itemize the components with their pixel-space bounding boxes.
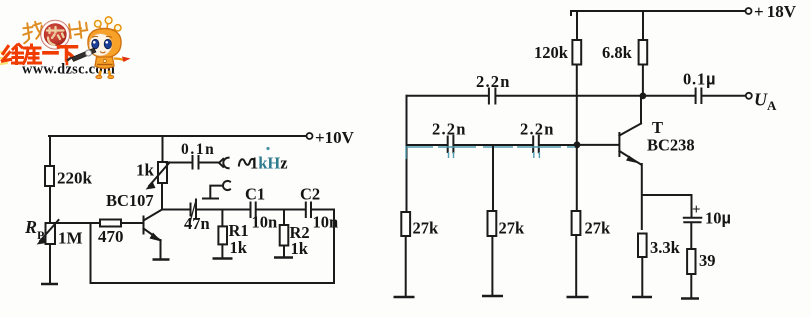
- svg-text:1k: 1k: [136, 161, 155, 180]
- wire: 3.3k to ground: [641, 257, 643, 297]
- char pian (chip) orange outlined: [69, 21, 88, 40]
- svg-text:39: 39: [699, 251, 716, 270]
- wiper arrow of RP: [40, 220, 59, 241]
- wire: 6.8k column from rail: [642, 11, 644, 40]
- node +18V terminal: [746, 2, 797, 21]
- resistor 27k third: [572, 211, 611, 238]
- svg-text:10µ: 10µ: [705, 209, 731, 228]
- wire: base node horizontal run: [50, 222, 142, 224]
- resistor 120k: [534, 40, 581, 65]
- ground bar 3.3k: [632, 296, 652, 299]
- svg-text:P: P: [37, 228, 44, 242]
- capacitor C1 10n: [245, 185, 277, 232]
- stray cyan speck: [266, 147, 269, 150]
- wire: rail down to 1k pot: [162, 136, 164, 162]
- svg-text:470: 470: [98, 227, 124, 246]
- mascot legs: [100, 71, 111, 77]
- svg-text:A: A: [767, 98, 777, 113]
- resistor 220k: [45, 166, 93, 188]
- wire: collector up to output node: [640, 96, 642, 124]
- svg-text:0.1µ: 0.1µ: [683, 70, 716, 89]
- wire: left column of RC ladder: [406, 96, 408, 212]
- wire: 120k column from rail: [576, 11, 578, 40]
- svg-text:47n: 47n: [184, 214, 210, 233]
- wire: emitter down: [160, 240, 162, 259]
- svg-text:1k: 1k: [291, 239, 309, 258]
- potentiometer 1k collector: [136, 161, 170, 190]
- node junction dot collector / output: [640, 93, 647, 100]
- mascot antennae: [99, 22, 117, 32]
- wire: vertical from base node down to bottom rail: [90, 223, 92, 283]
- svg-text:2.2n: 2.2n: [476, 72, 511, 91]
- capacitor 2.2n top: [476, 72, 511, 104]
- svg-text:+: +: [692, 202, 701, 218]
- svg-text:C1: C1: [245, 185, 265, 204]
- jack J2 probe symbol: [203, 181, 230, 199]
- jack J1 plug arc: [219, 158, 229, 169]
- wire: second ladder column: [492, 145, 494, 211]
- magnifier with xin glyph: [41, 20, 70, 49]
- wire: middle row segment 2 (teal tinted): [454, 144, 532, 146]
- transistor Q1 BC107: [106, 191, 162, 242]
- svg-text:220k: 220k: [57, 169, 93, 188]
- wire: 10u to 39: [690, 223, 692, 250]
- capacitor 47n: [184, 200, 210, 234]
- ground bar 39: [681, 297, 699, 300]
- wire: middle row segment 1 (teal tinted): [407, 144, 447, 146]
- mascot eyes: [92, 39, 99, 48]
- svg-text:27k: 27k: [413, 219, 440, 238]
- wire: output row to 0.1u cap: [496, 95, 695, 97]
- resistor 27k second: [488, 211, 526, 238]
- capacitor 0.1u: [683, 70, 716, 104]
- svg-text:3.3k: 3.3k: [650, 238, 681, 257]
- resistor 470: [98, 220, 124, 247]
- capacitor 10u electrolytic: [684, 202, 731, 228]
- svg-text:U: U: [754, 90, 768, 110]
- svg-text:T: T: [652, 118, 663, 137]
- teal scan tint along middle row: [406, 146, 575, 159]
- svg-text:1k: 1k: [230, 238, 248, 257]
- ground bar 1: [394, 296, 415, 299]
- node junction dot middle row / 120k column: [574, 141, 581, 148]
- svg-text:+10V: +10V: [315, 128, 355, 147]
- svg-text:R: R: [24, 217, 37, 237]
- wire: +10V top supply rail: [49, 135, 306, 137]
- capacitor 2.2n mid-left: [432, 120, 467, 153]
- wire: collector node to 47n: [162, 209, 190, 211]
- wire: 27k-1 to ground: [405, 236, 407, 297]
- mascot body: [95, 57, 114, 68]
- capacitor 2.2n mid-right: [520, 120, 555, 153]
- node +10V terminal: [307, 128, 355, 147]
- wire: 1k pot down to collector node: [161, 183, 163, 210]
- resistor 6.8k: [602, 40, 647, 65]
- wire: middle row segment 3 to base: [540, 144, 619, 146]
- resistor 27k first: [401, 212, 439, 238]
- char zhao (find) orange outlined: [22, 21, 45, 43]
- svg-text:1M: 1M: [58, 229, 83, 248]
- ground bar of R2: [274, 256, 293, 259]
- svg-text:120k: 120k: [534, 43, 569, 62]
- ground bar at bottom of left branch: [41, 283, 58, 286]
- mascot pen in hand: [72, 48, 97, 62]
- wire: emitter branch to bypass chain: [643, 195, 692, 217]
- svg-text:6.8k: 6.8k: [602, 43, 633, 62]
- resistor R1 1k: [218, 210, 248, 259]
- mascot right arm with red ribbon: [114, 59, 124, 61]
- svg-text:BC238: BC238: [647, 136, 695, 155]
- watermark logo dzsc.com: [0, 17, 131, 79]
- mascot mouth: [100, 52, 105, 53]
- svg-text:C2: C2: [300, 185, 320, 204]
- svg-text:2.2n: 2.2n: [432, 120, 467, 139]
- svg-text:1kHz: 1kHz: [250, 154, 288, 173]
- resistor 3.3k: [638, 234, 681, 258]
- wire: output row left segment: [407, 95, 489, 97]
- transistor T BC238: [619, 118, 694, 165]
- wire: emitter down: [641, 164, 643, 229]
- wire: C1 to C2: [256, 209, 305, 211]
- sine symbol and 1kHz label: [239, 154, 288, 173]
- capacitor 0.1n output: [167, 141, 219, 169]
- red chars wei ku yi xia: [3, 45, 77, 64]
- svg-text:+18V: +18V: [754, 2, 797, 21]
- mascot head: [88, 29, 121, 58]
- yellow accent strokes: [0, 52, 7, 64]
- svg-text:10n: 10n: [252, 213, 278, 232]
- wire: 47n to C1: [197, 209, 251, 211]
- wire: 39 to ground: [690, 274, 692, 298]
- node UA output terminal: [746, 90, 777, 114]
- wire: 120k down through middle node to 27k: [576, 65, 578, 212]
- resistor 39: [687, 249, 715, 274]
- wire: 27k-2 to ground: [491, 236, 493, 296]
- svg-text:BC107: BC107: [106, 191, 154, 210]
- ground bar of emitter: [153, 258, 170, 261]
- capacitor C2 10n: [300, 185, 338, 232]
- wire: 27k-3 to ground: [575, 235, 577, 297]
- wire: C2 to right edge and down to bottom rail: [312, 210, 335, 284]
- wire: 0.1u to UA terminal: [702, 95, 746, 97]
- svg-text:2.2n: 2.2n: [520, 120, 555, 139]
- ground bar of R1: [213, 257, 233, 260]
- wire: +18V top supply rail: [571, 11, 745, 15]
- wire: left vertical branch from rail down: [49, 136, 51, 283]
- resistor R2 1k: [280, 210, 310, 259]
- ground bar 3: [567, 296, 589, 299]
- potentiometer RP 1M: [24, 217, 83, 248]
- wire: bottom rail: [91, 282, 335, 284]
- wire: 6.8k down to collector node: [642, 65, 644, 97]
- svg-text:0.1n: 0.1n: [181, 141, 215, 158]
- svg-text:27k: 27k: [499, 219, 526, 238]
- ground bar 2: [482, 295, 503, 298]
- svg-text:27k: 27k: [585, 219, 612, 238]
